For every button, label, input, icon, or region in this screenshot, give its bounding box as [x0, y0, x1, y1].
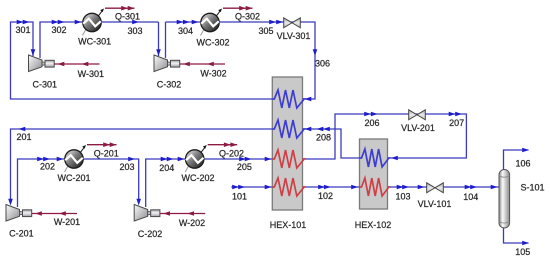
svg-text:202: 202	[40, 162, 55, 172]
svg-text:Q-201: Q-201	[94, 149, 119, 159]
svg-text:WC-202: WC-202	[181, 173, 214, 183]
svg-text:207: 207	[449, 118, 464, 128]
svg-text:WC-302: WC-302	[196, 38, 229, 48]
svg-text:306: 306	[315, 59, 330, 69]
svg-text:208: 208	[316, 133, 331, 143]
svg-text:302: 302	[51, 25, 66, 35]
svg-text:W-202: W-202	[179, 218, 205, 228]
svg-text:C-201: C-201	[9, 229, 34, 239]
svg-text:304: 304	[178, 26, 193, 36]
svg-text:W-302: W-302	[200, 69, 226, 79]
svg-text:VLV-101: VLV-101	[418, 199, 452, 209]
svg-text:303: 303	[127, 26, 142, 36]
svg-text:103: 103	[395, 191, 410, 201]
svg-text:VLV-201: VLV-201	[401, 123, 435, 133]
svg-text:HEX-102: HEX-102	[355, 220, 392, 230]
svg-text:C-202: C-202	[138, 229, 163, 239]
svg-text:201: 201	[16, 132, 31, 142]
svg-text:206: 206	[364, 118, 379, 128]
svg-text:C-302: C-302	[157, 80, 182, 90]
svg-text:105: 105	[515, 247, 530, 257]
svg-text:W-201: W-201	[54, 217, 80, 227]
svg-text:102: 102	[318, 191, 333, 201]
svg-text:WC-301: WC-301	[78, 37, 111, 47]
svg-text:104: 104	[463, 192, 478, 202]
svg-text:S-101: S-101	[520, 183, 544, 193]
svg-text:203: 203	[119, 162, 134, 172]
svg-text:305: 305	[258, 26, 273, 36]
svg-text:106: 106	[515, 158, 530, 168]
svg-text:204: 204	[159, 163, 174, 173]
svg-text:301: 301	[15, 25, 30, 35]
svg-text:VLV-301: VLV-301	[277, 31, 311, 41]
svg-text:Q-302: Q-302	[235, 12, 260, 22]
svg-text:W-301: W-301	[78, 69, 104, 79]
svg-text:C-301: C-301	[33, 80, 58, 90]
svg-text:WC-201: WC-201	[57, 173, 90, 183]
svg-text:HEX-101: HEX-101	[270, 220, 307, 230]
svg-text:101: 101	[232, 192, 247, 202]
svg-text:Q-202: Q-202	[219, 149, 244, 159]
svg-text:205: 205	[237, 162, 252, 172]
svg-text:Q-301: Q-301	[115, 12, 140, 22]
